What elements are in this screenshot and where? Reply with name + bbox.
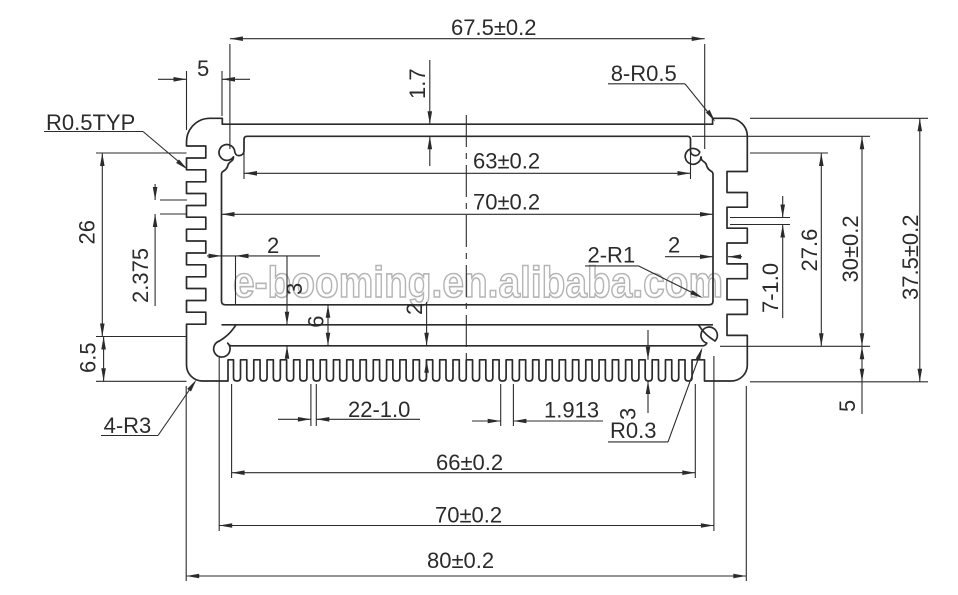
svg-text:66±0.2: 66±0.2 — [436, 450, 503, 475]
interior ceiling, slot, screw bosses, shelf top — [219, 136, 713, 304]
center line — [465, 115, 467, 362]
svg-text:5: 5 — [835, 400, 860, 412]
svg-text:27.6: 27.6 — [797, 229, 822, 272]
svg-text:22-1.0: 22-1.0 — [348, 397, 410, 422]
dim 26 (left) — [101, 153, 103, 337]
svg-text:1.913: 1.913 — [544, 398, 599, 423]
dim 80±0.2 — [186, 575, 746, 577]
svg-text:8-R0.5: 8-R0.5 — [611, 61, 677, 86]
dim 67.5±0.2 — [230, 38, 705, 40]
svg-text:70±0.2: 70±0.2 — [473, 190, 540, 215]
svg-text:63±0.2: 63±0.2 — [473, 149, 540, 174]
dim 6 (shelf to floor) — [327, 305, 329, 346]
dim 2.375 (left fin pitch) — [154, 184, 156, 200]
dim 3 (shelf) — [286, 256, 288, 325]
svg-text:37.5±0.2: 37.5±0.2 — [898, 215, 923, 300]
svg-text:2: 2 — [267, 233, 279, 258]
profile outer outline — [187, 118, 748, 381]
interior shelf bottom, bottom bosses, floor — [214, 325, 718, 357]
dim 70±0.2 (inner width) — [222, 213, 714, 215]
svg-text:80±0.2: 80±0.2 — [427, 548, 494, 573]
svg-text:7-1.0: 7-1.0 — [758, 263, 783, 313]
dim 22-1.0 (bottom fins) — [278, 418, 311, 420]
svg-text:2.375: 2.375 — [128, 248, 153, 303]
svg-text:2: 2 — [402, 303, 427, 315]
dim 27.6 (right) — [820, 153, 822, 346]
svg-text:2: 2 — [668, 233, 680, 258]
svg-text:e-booming.en.alibaba.com: e-booming.en.alibaba.com — [233, 258, 723, 307]
dim 70±0.2 (bottom) — [219, 525, 714, 527]
dim 3 (fin height, right of fins) — [647, 330, 649, 360]
dim 6.5 (left bottom) — [103, 337, 105, 382]
dim 2 (right side) — [665, 256, 713, 258]
dim 66±0.2 — [232, 472, 696, 474]
dim 5 (top-left lip) — [158, 78, 187, 80]
dim 1.913 (fin pitch) — [472, 420, 501, 422]
svg-text:6.5: 6.5 — [76, 342, 101, 373]
dim 5 (right bottom) — [861, 346, 863, 414]
svg-text:30±0.2: 30±0.2 — [838, 215, 863, 282]
svg-text:26: 26 — [75, 220, 100, 244]
svg-text:3: 3 — [282, 283, 307, 295]
svg-text:6: 6 — [304, 315, 329, 327]
dim 7-1.0 (right fins) — [782, 196, 784, 218]
dim 1.7 (top wall) — [429, 60, 431, 124]
svg-text:5: 5 — [197, 56, 209, 81]
dim 37.5±0.2 (overall) — [919, 118, 921, 382]
dim 63±0.2 — [244, 172, 691, 174]
svg-text:4-R3: 4-R3 — [104, 413, 152, 438]
dim 2 (bottom wall) — [426, 302, 428, 346]
svg-text:67.5±0.2: 67.5±0.2 — [451, 15, 536, 40]
shelf bottom line — [222, 324, 714, 326]
svg-text:70±0.2: 70±0.2 — [435, 503, 502, 528]
svg-text:1.7: 1.7 — [405, 68, 430, 99]
dim 2 (left pcb slot) — [207, 255, 320, 257]
svg-text:R0.3: R0.3 — [610, 418, 656, 443]
dim 30±0.2 (right) — [861, 136, 863, 346]
svg-text:2-R1: 2-R1 — [588, 243, 636, 268]
